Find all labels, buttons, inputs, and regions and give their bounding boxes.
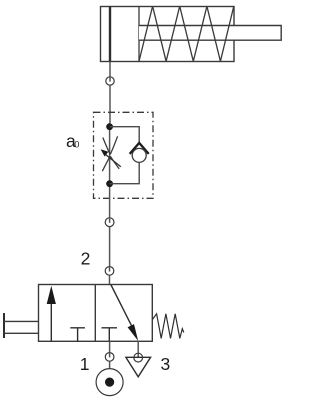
check valve V1 seat — [130, 143, 149, 154]
valve port 1 stub — [109, 341, 111, 352]
node 2 (connection circle) — [105, 267, 114, 276]
cylinder piston — [109, 7, 111, 62]
flow control valve a0 dashed enclosure — [94, 112, 154, 198]
plunger actuator — [3, 313, 5, 338]
throttle adjustment arrow — [106, 155, 121, 167]
wire node 2 to valve port 2 — [109, 275, 111, 284]
right position flow path 2 to 3 (diagonal arrow) — [111, 285, 134, 331]
cylinder return spring — [139, 6, 234, 61]
left position flow arrow (1 to 2) — [50, 295, 52, 341]
wire check valve to bottom junction — [110, 163, 140, 184]
valve position divider — [94, 285, 96, 342]
node A (connection circle below cylinder) — [106, 77, 114, 85]
right position blocked port T — [102, 328, 118, 342]
exhaust silencer triangle — [126, 357, 151, 377]
check valve ball — [132, 148, 146, 162]
wire cylinder port to node A — [109, 62, 111, 78]
svg-text:1: 1 — [80, 354, 90, 374]
port 1 connection circle — [105, 353, 114, 362]
junction dot bottom — [106, 180, 113, 187]
svg-text:0: 0 — [74, 140, 79, 150]
wire node A to flow control enclosure — [109, 85, 111, 123]
throttle valve (adjustable) arcs — [102, 136, 119, 171]
valve port 3 stub — [137, 341, 139, 357]
valve V2 3/2-way body — [39, 285, 153, 342]
junction dot top — [106, 123, 113, 130]
cylinder piston rod — [139, 26, 281, 41]
svg-text:3: 3 — [161, 354, 171, 374]
left position blocked port T — [70, 328, 85, 342]
port 3 connection circle — [134, 353, 143, 362]
wire node B to node 2 — [109, 227, 111, 267]
wire enclosure to node B — [109, 187, 111, 218]
cylinder spring seat line — [138, 7, 140, 62]
spring return — [152, 314, 183, 339]
svg-text:2: 2 — [81, 248, 91, 268]
node B (connection circle) — [105, 218, 114, 227]
wire branch to check valve (top) — [110, 127, 140, 143]
cylinder C1 barrel (single-acting, spring return) — [101, 7, 235, 62]
wire through throttle (main line in enclosure) — [109, 123, 111, 187]
wire port 1 to source — [109, 361, 111, 378]
compressed air source — [96, 369, 123, 396]
